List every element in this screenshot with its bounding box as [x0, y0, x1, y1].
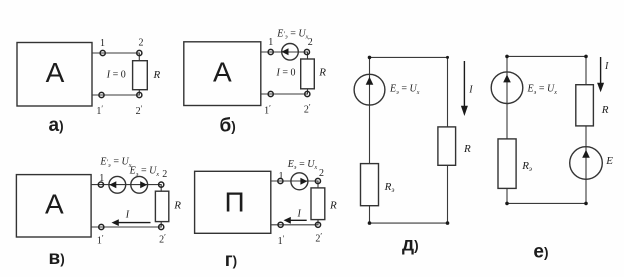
- terminal 2 (g): [315, 178, 320, 183]
- terminal 1 (v): [98, 182, 103, 187]
- svg-text:г): г): [225, 250, 237, 271]
- junction dot bottom-right (d): [446, 221, 450, 225]
- circuit loop wires (e): [507, 56, 586, 203]
- svg-text:2: 2: [308, 37, 313, 48]
- EMF source E second (v): [131, 176, 148, 193]
- network box A (a): [17, 43, 92, 107]
- resistor R (e): [576, 85, 594, 126]
- svg-text:2′: 2′: [315, 232, 322, 245]
- svg-text:1: 1: [268, 37, 273, 48]
- svg-text:б): б): [220, 116, 236, 137]
- svg-text:R: R: [153, 69, 161, 81]
- svg-text:R: R: [318, 67, 326, 79]
- svg-text:I = 0: I = 0: [106, 70, 126, 81]
- wire top 1-2 (a): [92, 53, 139, 61]
- EMF source E (e): [491, 72, 523, 104]
- wire top 1-2 (g): [271, 181, 318, 188]
- resistor R (b): [301, 59, 315, 89]
- junction dot bottom-left (d): [368, 221, 372, 225]
- wire bottom 2'-1' (g): [271, 220, 318, 225]
- EMF source E' (b): [282, 44, 299, 61]
- terminal 1 (b): [268, 49, 273, 54]
- svg-text:Rэ: Rэ: [521, 160, 532, 173]
- terminal 2 (v): [159, 182, 164, 187]
- svg-text:д): д): [402, 235, 419, 256]
- resistor R (a): [133, 61, 148, 90]
- terminal 1' (v): [99, 224, 104, 229]
- resistor Re (d): [361, 164, 379, 206]
- svg-text:R: R: [601, 104, 609, 116]
- terminal 2 (b): [304, 49, 309, 54]
- svg-text:е): е): [533, 242, 548, 263]
- wire top 1-2 (b): [261, 52, 308, 59]
- junction dot bottom-right (e): [584, 202, 588, 206]
- svg-text:А: А: [45, 188, 64, 219]
- terminal 1 (a): [100, 50, 105, 55]
- terminal 2 (a): [137, 50, 142, 55]
- svg-text:1′: 1′: [264, 104, 271, 117]
- svg-text:А: А: [213, 57, 232, 88]
- terminal 1' (b): [268, 91, 273, 96]
- svg-text:I: I: [297, 208, 302, 219]
- source arrow left (v): [109, 181, 116, 188]
- EMF source E' first (v): [109, 176, 126, 193]
- svg-text:2′: 2′: [136, 104, 143, 117]
- svg-text:1′: 1′: [96, 104, 103, 117]
- svg-text:E′э = Uх: E′э = Uх: [276, 29, 308, 41]
- resistor R (g): [311, 188, 325, 220]
- junction dot top-right (e): [584, 55, 588, 59]
- current arrow I (d): [463, 61, 465, 107]
- resistor R (d): [438, 127, 456, 165]
- svg-text:в): в): [49, 248, 65, 269]
- terminal 2' (a): [137, 92, 142, 97]
- wire bottom 2'-1' (b): [261, 89, 308, 94]
- svg-text:1: 1: [99, 173, 104, 184]
- source arrow up lower (e): [582, 150, 590, 158]
- source arrow right (v): [140, 181, 147, 188]
- svg-text:Eэ = Uх: Eэ = Uх: [389, 84, 420, 96]
- svg-text:1: 1: [100, 38, 105, 49]
- terminal 2' (v): [159, 224, 164, 229]
- network box P (g): [195, 171, 271, 233]
- source arrow left (b): [282, 48, 289, 55]
- wire top 1-2 (v): [91, 185, 161, 192]
- svg-text:а): а): [49, 115, 64, 136]
- terminal 2' (b): [305, 91, 310, 96]
- EMF source E (g): [291, 173, 308, 190]
- svg-text:1′: 1′: [278, 234, 285, 247]
- current arrow I (e): [600, 57, 602, 84]
- terminal 1' (g): [278, 222, 283, 227]
- svg-text:2′: 2′: [159, 233, 166, 246]
- svg-text:R: R: [463, 143, 471, 155]
- terminal 2' (g): [315, 222, 320, 227]
- svg-text:2: 2: [162, 169, 167, 180]
- junction dot bottom-left (e): [505, 202, 509, 206]
- svg-text:I: I: [468, 85, 473, 96]
- wire bottom 2'-1' (v): [91, 222, 161, 227]
- svg-text:1: 1: [279, 171, 284, 182]
- svg-text:I: I: [125, 210, 130, 221]
- wire bottom 2'-1' (a): [92, 90, 139, 95]
- current arrow I (g): [288, 219, 307, 221]
- junction dot top-left (e): [505, 55, 509, 59]
- source arrow up (e): [503, 75, 511, 83]
- svg-text:I: I: [604, 61, 609, 72]
- svg-text:E: E: [605, 155, 613, 167]
- network box A (v): [16, 175, 91, 237]
- svg-text:1′: 1′: [97, 234, 104, 247]
- svg-text:А: А: [46, 57, 65, 88]
- svg-text:2: 2: [139, 38, 144, 49]
- svg-text:R: R: [329, 200, 337, 212]
- EMF source E lower (e): [570, 147, 603, 180]
- svg-text:Eэ = Uх: Eэ = Uх: [129, 166, 160, 178]
- terminal 1' (a): [99, 92, 104, 97]
- circuit loop wires (d): [370, 57, 448, 223]
- source arrow right (g): [300, 178, 307, 185]
- svg-text:П: П: [224, 187, 244, 218]
- EMF source E (d): [354, 74, 385, 105]
- svg-text:I = 0: I = 0: [276, 67, 296, 78]
- svg-text:Eэ = Uх: Eэ = Uх: [287, 159, 318, 171]
- svg-text:2: 2: [319, 168, 324, 179]
- resistor Re (e): [498, 139, 516, 189]
- svg-text:E′э = Uх: E′э = Uх: [99, 157, 131, 169]
- svg-text:R: R: [173, 200, 181, 212]
- svg-text:Rэ: Rэ: [384, 181, 395, 194]
- svg-text:2′: 2′: [304, 103, 311, 116]
- junction dot top-right (d): [446, 56, 449, 59]
- resistor R (v): [155, 191, 168, 221]
- source arrow up (d): [366, 77, 374, 85]
- junction dot top-left (d): [368, 56, 372, 60]
- terminal 1 (g): [278, 178, 283, 183]
- network box A (b): [184, 42, 261, 106]
- svg-text:Eэ = Uх: Eэ = Uх: [527, 84, 558, 96]
- current arrow I (v): [116, 222, 151, 224]
